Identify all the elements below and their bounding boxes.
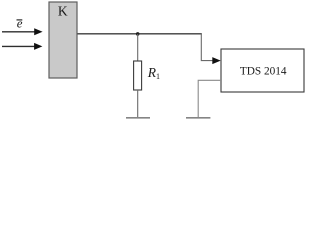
converter block K bbox=[49, 2, 77, 78]
ground at scope lead bbox=[186, 117, 210, 119]
resistor R1 bbox=[134, 61, 142, 90]
wire: K output horizontal bbox=[78, 33, 202, 35]
svg-text:K: K bbox=[58, 4, 68, 19]
arrow into oscilloscope bbox=[212, 57, 220, 64]
oscilloscope TDS 2014 bbox=[221, 49, 304, 92]
arrow input 1 bbox=[2, 28, 43, 35]
node junction bbox=[136, 32, 140, 36]
svg-text:e: e bbox=[17, 16, 23, 31]
wire: corner down to scope input bbox=[201, 34, 212, 61]
ground under R1 bbox=[126, 117, 150, 119]
arrow input 2 bbox=[2, 43, 42, 50]
wire: R1 to ground bbox=[137, 90, 139, 118]
wire: scope ground lead bbox=[198, 80, 221, 117]
label e-bar (electron beam) bbox=[17, 16, 23, 31]
svg-text:TDS 2014: TDS 2014 bbox=[240, 66, 287, 78]
wire: junction down to R1 bbox=[137, 34, 139, 62]
